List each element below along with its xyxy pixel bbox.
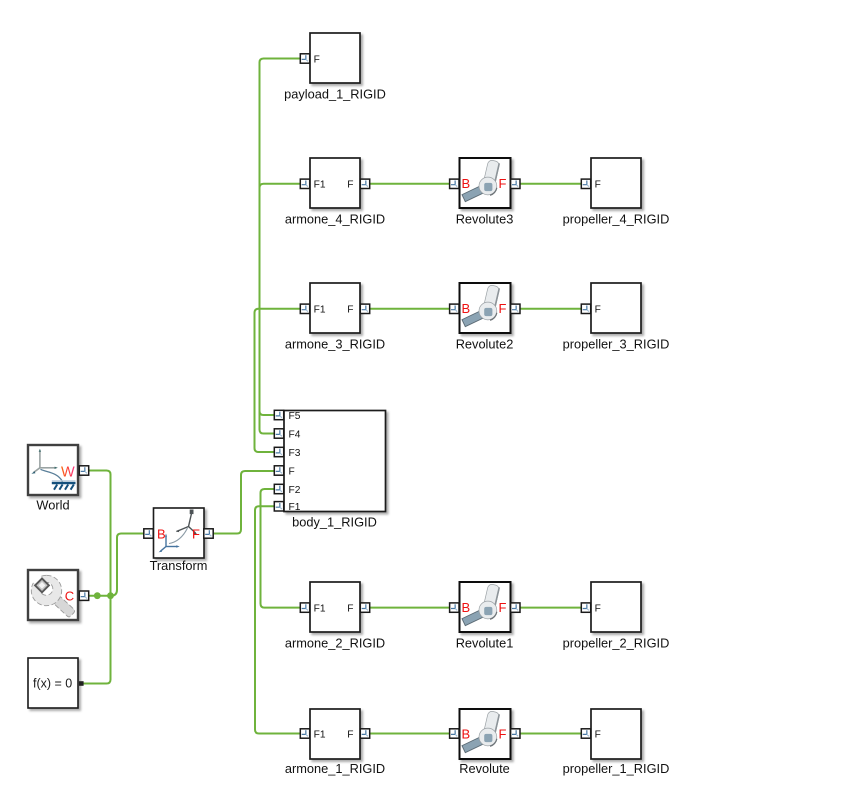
svg-text:F: F	[499, 600, 507, 615]
port F of body	[274, 466, 283, 475]
diamond nut	[35, 578, 49, 592]
block Revolute	[450, 709, 520, 776]
port F2 of body	[274, 484, 283, 493]
svg-text:F: F	[499, 301, 507, 316]
port B of Revolute2	[450, 304, 459, 313]
svg-text:F: F	[595, 180, 601, 191]
svg-text:F: F	[499, 726, 507, 741]
svg-text:F1: F1	[314, 305, 326, 316]
port F of propeller_4	[581, 179, 590, 188]
block Revolute1	[450, 582, 520, 651]
svg-text:propeller_4_RIGID: propeller_4_RIGID	[563, 211, 670, 226]
port F of propeller_2	[581, 603, 590, 612]
handle	[50, 593, 76, 618]
svg-text:F2: F2	[289, 485, 301, 496]
block armone_2_RIGID	[285, 582, 385, 651]
svg-text:Revolute1: Revolute1	[456, 636, 514, 651]
block propeller_3_RIGID	[563, 283, 670, 351]
svg-text:armone_2_RIGID: armone_2_RIGID	[285, 636, 385, 651]
block payload_1_RIGID	[284, 33, 386, 102]
world frame icon	[34, 452, 56, 473]
svg-text:F: F	[595, 730, 601, 741]
wire payload F to body F5	[260, 59, 301, 416]
port F of Revolute2	[511, 304, 520, 313]
svg-text:W: W	[61, 464, 75, 480]
block World	[28, 445, 89, 513]
svg-text:F1: F1	[314, 730, 326, 741]
svg-text:B: B	[157, 526, 166, 541]
port F1 of armone_3	[300, 304, 309, 313]
svg-text:propeller_2_RIGID: propeller_2_RIGID	[563, 636, 670, 651]
svg-text:B: B	[462, 301, 471, 316]
svg-text:C: C	[65, 589, 74, 604]
block body_1_RIGID	[274, 410, 385, 529]
block Transform	[144, 508, 213, 573]
wire World W to junction to Solver	[83, 471, 111, 684]
top-right dark frame	[189, 514, 192, 527]
block Revolute2	[450, 283, 520, 351]
port B of Transform	[144, 529, 153, 538]
wrench icon	[30, 573, 75, 618]
block Solver Configuration	[28, 658, 84, 708]
port B of Revolute3	[450, 179, 459, 188]
svg-text:body_1_RIGID: body_1_RIGID	[292, 515, 377, 530]
wire Mechanism Configuration C to junction	[89, 595, 111, 597]
wire Revolute1 F to propeller_2 F	[520, 607, 581, 609]
port B of Revolute1	[450, 603, 459, 612]
svg-text:F: F	[499, 176, 507, 191]
wire armone_4 F to Revolute3 B	[370, 183, 449, 185]
port F1 of armone_4	[300, 179, 309, 188]
ground bar	[52, 480, 76, 482]
curved connection	[169, 528, 188, 544]
svg-text:Transform: Transform	[150, 558, 208, 573]
wire armone_2 F to Revolute1 B	[370, 607, 449, 609]
wire Transform B to junction	[111, 534, 145, 596]
port F5 of body	[274, 410, 283, 419]
wire armone_2 F1 to body F2	[261, 489, 301, 608]
svg-text:armone_4_RIGID: armone_4_RIGID	[285, 211, 385, 226]
block propeller_2_RIGID	[563, 582, 670, 651]
svg-text:F: F	[595, 604, 601, 615]
svg-text:F: F	[314, 55, 320, 66]
svg-text:propeller_1_RIGID: propeller_1_RIGID	[563, 761, 670, 776]
svg-text:World: World	[36, 498, 69, 513]
port of Solver	[79, 681, 84, 686]
svg-text:F5: F5	[289, 411, 301, 422]
port F of armone_2	[360, 603, 369, 612]
port F of Revolute1	[511, 603, 520, 612]
svg-text:B: B	[462, 176, 471, 191]
svg-text:propeller_3_RIGID: propeller_3_RIGID	[563, 336, 670, 351]
block propeller_4_RIGID	[563, 158, 670, 226]
svg-text:F: F	[347, 180, 353, 191]
svg-text:F3: F3	[289, 448, 301, 459]
block armone_4_RIGID	[285, 158, 385, 226]
open-end head: annulus with gap toward upper-left	[31, 575, 61, 605]
curved line to ground	[41, 469, 63, 481]
svg-text:F1: F1	[289, 502, 301, 513]
wire armone_3 F1 to body F3	[255, 309, 301, 452]
svg-text:F1: F1	[314, 180, 326, 191]
svg-text:F1: F1	[314, 604, 326, 615]
port F1 of armone_1	[300, 729, 309, 738]
wire Revolute2 F to propeller_3 F	[520, 308, 581, 310]
block Mechanism Configuration	[28, 570, 89, 620]
wire armone_4 F1 to body F4	[260, 184, 301, 434]
svg-text:F: F	[192, 526, 200, 541]
wire Revolute F to propeller_1 F	[520, 733, 581, 735]
svg-text:Revolute2: Revolute2	[456, 336, 514, 351]
port C of Mechanism Configuration	[79, 591, 88, 600]
svg-text:armone_3_RIGID: armone_3_RIGID	[285, 336, 385, 351]
wire Transform F to body F	[213, 471, 274, 534]
svg-text:B: B	[462, 600, 471, 615]
port F of armone_3	[360, 304, 369, 313]
wire armone_1 F1 to body F1	[255, 506, 300, 733]
port W of World	[79, 466, 88, 475]
block armone_3_RIGID	[285, 283, 385, 351]
wire armone_1 F to Revolute B	[370, 733, 449, 735]
junction dot A	[94, 592, 101, 599]
port F of armone_1	[360, 729, 369, 738]
svg-text:armone_1_RIGID: armone_1_RIGID	[285, 761, 385, 776]
block propeller_1_RIGID	[563, 709, 670, 776]
ground hatches	[54, 485, 74, 490]
port F of Revolute	[511, 729, 520, 738]
wire armone_3 F to Revolute2 B	[370, 308, 449, 310]
svg-text:F: F	[347, 305, 353, 316]
svg-text:f(x) = 0: f(x) = 0	[33, 677, 72, 691]
block armone_1_RIGID	[285, 709, 385, 776]
port F of Transform	[204, 529, 213, 538]
port F4 of body	[274, 429, 283, 438]
port F3 of body	[274, 447, 283, 456]
port F1 of body	[274, 502, 283, 511]
svg-text:payload_1_RIGID: payload_1_RIGID	[284, 87, 386, 102]
junction dot B	[107, 592, 114, 599]
port F of payload	[300, 54, 309, 63]
wire Revolute3 F to propeller_4 F	[520, 183, 581, 185]
svg-text:F: F	[347, 604, 353, 615]
port F1 of armone_2	[300, 603, 309, 612]
svg-text:F4: F4	[289, 430, 301, 441]
port F of armone_4	[360, 179, 369, 188]
svg-text:F: F	[289, 467, 295, 478]
svg-text:Revolute3: Revolute3	[456, 211, 514, 226]
port F of Revolute3	[511, 179, 520, 188]
block Revolute3	[450, 158, 520, 226]
svg-text:F: F	[347, 730, 353, 741]
svg-text:F: F	[595, 305, 601, 316]
svg-text:Revolute: Revolute	[459, 761, 510, 776]
port F of propeller_3	[581, 304, 590, 313]
svg-text:B: B	[462, 726, 471, 741]
port F of propeller_1	[581, 729, 590, 738]
port B of Revolute	[450, 729, 459, 738]
transform icon	[159, 510, 198, 553]
